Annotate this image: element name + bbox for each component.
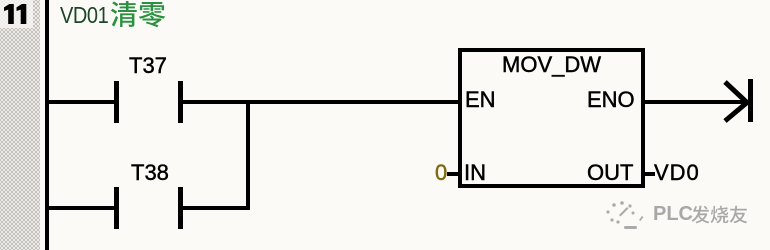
operand VD0: [654, 160, 700, 186]
pin OUT: [587, 160, 633, 186]
left power rail: [45, 0, 49, 250]
network margin hatch bar: [0, 0, 40, 250]
network title 清零: [110, 0, 168, 29]
contact T37 left plate: [114, 81, 119, 123]
network title VD01: [60, 2, 108, 29]
wire rail to T38: [45, 206, 114, 210]
pin IN: [464, 160, 486, 186]
operand 0 tick wire to IN: [447, 172, 458, 176]
function block MOV_DW box: [458, 48, 645, 188]
contact T37 right plate: [178, 81, 183, 123]
watermark text 发烧友: [691, 205, 751, 226]
pin EN: [465, 87, 496, 113]
wire T38 to branch junction: [183, 206, 250, 210]
block title MOV_DW: [458, 52, 645, 78]
contact T38 label: [131, 160, 169, 186]
contact T38 left plate: [114, 187, 119, 229]
wire ENO to continuation arrow: [645, 100, 746, 104]
wire T37 to MOV_DW EN: [183, 100, 458, 104]
watermark text PLC: [653, 203, 693, 226]
network number 11: [0, 0, 33, 28]
branch junction vertical wire: [246, 100, 250, 210]
pin ENO: [587, 87, 635, 113]
continuation arrow (open rung arrow): [723, 76, 757, 126]
contact T38 right plate: [178, 187, 183, 229]
watermark logo: [602, 198, 646, 230]
wire rail to T37: [45, 100, 114, 104]
operand VD0 tick wire from OUT: [645, 172, 655, 176]
contact T37 label: [129, 53, 167, 79]
operand value 0: [435, 160, 447, 186]
